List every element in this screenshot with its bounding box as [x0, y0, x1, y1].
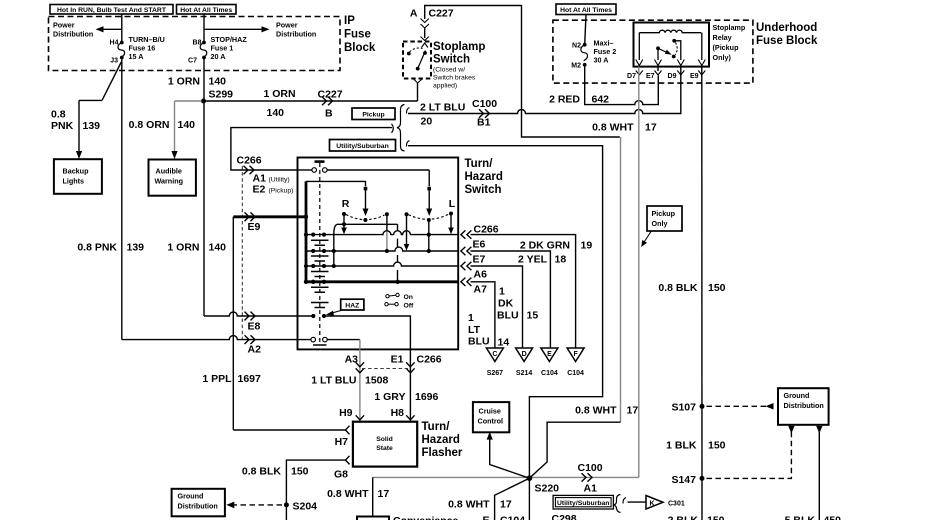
svg-text:Hazard: Hazard: [422, 434, 460, 446]
svg-text:20: 20: [421, 116, 433, 128]
wire bus top horizontal to R feed: [306, 181, 366, 186]
svg-text:C104: C104: [541, 370, 558, 377]
wire 1 PPL 1697 riser from H7 up to E9: [232, 217, 234, 430]
svg-text:2 BLK: 2 BLK: [668, 515, 699, 520]
svg-text:(Pickup: (Pickup: [713, 43, 740, 52]
switch row3 (A6): [304, 262, 458, 268]
label 0.8 WHT 17 (upper): [592, 122, 657, 134]
svg-text:0.8 BLK: 0.8 BLK: [658, 282, 698, 294]
svg-text:C227: C227: [429, 8, 454, 20]
svg-text:5 BLK: 5 BLK: [785, 515, 816, 520]
svg-text:applied): applied): [433, 83, 457, 90]
svg-text:F: F: [573, 351, 578, 358]
svg-text:H4: H4: [110, 40, 119, 47]
pin A and C227 at top: [410, 8, 454, 29]
label Hot At All Times (IP): [177, 5, 237, 15]
connector C100 B1: [472, 98, 497, 129]
E9 bus tap dot: [304, 215, 308, 219]
svg-text:1: 1: [499, 286, 505, 298]
label 1 PPL 1697: [202, 373, 261, 385]
L cancel cam dashed arc: [409, 214, 450, 219]
svg-text:150: 150: [291, 466, 309, 478]
wire E7 2 YEL 18 to triangle E: [471, 251, 551, 348]
svg-text:15: 15: [527, 310, 539, 322]
svg-text:IP: IP: [344, 15, 355, 27]
wire from Hot At All Times to fuse STOP/HAZ: [203, 14, 205, 42]
switch A2 contact row (open circles) to A3: [311, 337, 360, 349]
label HAZ with arrow: [326, 299, 364, 316]
label 0.8 ORN 140: [129, 119, 196, 131]
svg-text:Turn/: Turn/: [465, 158, 494, 170]
svg-text:2 RED: 2 RED: [549, 94, 580, 106]
dashed ground reference S107 to ground distribution: [707, 403, 774, 410]
wire stoplamp A chevron into box: [421, 37, 429, 41]
svg-text:17: 17: [627, 405, 639, 417]
svg-text:Ground: Ground: [178, 492, 204, 501]
label TURN-B/U Fuse 16 15 A: [129, 35, 165, 61]
connector C266 dashed plane A3-E1: [362, 368, 408, 370]
svg-text:Distribution: Distribution: [178, 502, 218, 511]
svg-text:Utility/Suburban: Utility/Suburban: [336, 143, 389, 150]
svg-text:C266: C266: [237, 155, 262, 167]
label Underhood Fuse Block: [756, 22, 818, 47]
svg-text:B8: B8: [193, 40, 202, 47]
switch row2 (E7): [306, 247, 458, 253]
wire wafer jumper vertical to row4: [397, 239, 399, 282]
svg-text:Convenience: Convenience: [393, 515, 459, 520]
wire E9 thick from riser into switch: [233, 215, 306, 218]
wire S220 to E C104 0.8 WHT 17: [495, 478, 530, 520]
wire to K triangle: [628, 501, 646, 503]
svg-text:A2: A2: [248, 344, 262, 356]
svg-text:17: 17: [645, 122, 657, 134]
svg-text:State: State: [376, 445, 393, 452]
wire S220 down to C298: [528, 478, 530, 520]
svg-text:19: 19: [581, 240, 593, 252]
triangle connector K C301: [646, 496, 685, 510]
pin H7 with chevron: [335, 426, 350, 448]
label 1 LT BLU 14: [468, 312, 509, 349]
label Utility/Suburban box: [330, 140, 396, 152]
label Turn/Hazard Flasher: [422, 421, 463, 459]
splice S147: [671, 474, 704, 486]
svg-text:L: L: [449, 198, 456, 210]
svg-text:D7: D7: [627, 73, 636, 80]
connector chevron below stoplamp switch: [414, 79, 422, 83]
label 0.8 WHT 17 (lower): [448, 499, 512, 511]
label 2 YEL 18: [518, 254, 566, 266]
wire S299 right to C227 B then up to stoplamp switch: [204, 83, 418, 101]
label 2 RED 642: [549, 94, 609, 106]
wire A6 1 DK BLU 15 to triangle D: [471, 266, 523, 348]
wire 2 LT BLU 20 (pickup) to relay D9: [408, 83, 681, 114]
svg-text:Hazard: Hazard: [465, 171, 503, 183]
svg-text:M2: M2: [571, 63, 581, 70]
svg-text:Solid: Solid: [376, 436, 393, 443]
label 2 BLK 150 (cut bottom): [668, 515, 725, 520]
svg-text:Fuse: Fuse: [344, 29, 371, 41]
dashed ground reference S147 path: [707, 426, 795, 479]
svg-text:140: 140: [209, 242, 227, 254]
svg-text:E9: E9: [248, 221, 261, 233]
svg-text:E8: E8: [248, 321, 261, 333]
svg-text:H8: H8: [391, 407, 405, 419]
wire 0.8 WHT trunk gray through S220: [373, 476, 639, 478]
svg-text:B1: B1: [477, 117, 491, 129]
R feed arrow: [363, 190, 369, 216]
svg-text:A7: A7: [474, 284, 488, 296]
svg-text:0.8: 0.8: [51, 109, 66, 121]
svg-text:1 BLK: 1 BLK: [666, 440, 697, 452]
box Convenience Center (cut): [357, 515, 459, 520]
wire S299 down to E8 (1 ORN 140 long vertical): [203, 101, 205, 316]
stoplamp switch contacts: [407, 43, 428, 71]
svg-text:G8: G8: [334, 469, 348, 481]
connector chevrons E9: [245, 212, 256, 221]
label 1 GRY 1696: [374, 391, 438, 403]
svg-text:Relay: Relay: [713, 33, 732, 42]
label Pickup box: [352, 108, 395, 120]
turn/hazard flasher box: [353, 422, 417, 467]
svg-text:0.8 BLK: 0.8 BLK: [242, 466, 282, 478]
svg-text:HAZ: HAZ: [345, 302, 359, 309]
svg-text:Flasher: Flasher: [422, 447, 463, 459]
svg-text:C104: C104: [500, 515, 525, 520]
svg-text:2 LT BLU: 2 LT BLU: [420, 102, 465, 114]
wire Hot At All Times to maxi-fuse: [585, 15, 586, 45]
stoplamp switch dashed box: [403, 42, 431, 79]
connector C266 chevrons on A3 E1: [356, 362, 415, 373]
connector C266 dashed plane line: [241, 166, 243, 340]
L left post: [404, 212, 410, 250]
label 2 DK GRN 19: [520, 240, 593, 252]
svg-text:Off: Off: [404, 303, 415, 310]
wire wafer jumper horizontal: [334, 224, 398, 234]
wire 2 RED 642 from M2 to relay E7: [585, 65, 659, 105]
wire utility/suburban branch to S220 riser (right): [408, 146, 603, 479]
svg-text:LT: LT: [468, 324, 481, 336]
pin E2 (Pickup): [253, 184, 294, 196]
label Hot At All Times (underhood): [556, 4, 616, 15]
svg-text:BLU: BLU: [497, 310, 519, 322]
svg-text:139: 139: [127, 242, 145, 254]
label 1 DK BLU 15: [497, 286, 538, 322]
IP fuse block dashed box: [49, 17, 341, 71]
svg-text:Switch brakes: Switch brakes: [433, 75, 476, 82]
connector C266 chevrons rows E6 E7 A6 A7: [461, 230, 472, 286]
svg-text:E1: E1: [391, 354, 404, 366]
svg-text:1 ORN: 1 ORN: [264, 88, 296, 100]
svg-text:S147: S147: [671, 474, 696, 486]
splice S220: [527, 475, 560, 494]
svg-text:14: 14: [498, 337, 510, 349]
arrow to Power Distribution right: [204, 26, 270, 32]
L right post: [448, 212, 454, 235]
svg-text:Backup: Backup: [63, 167, 90, 176]
turn/hazard switch box: [298, 158, 459, 350]
svg-text:15 A: 15 A: [129, 52, 144, 61]
label Pickup Only with arrow: [641, 206, 682, 247]
label Hot In RUN, Bulb Test And START: [50, 5, 173, 15]
wire A7 1 LT BLU 14 to triangle C: [471, 282, 495, 348]
svg-text:1: 1: [468, 312, 474, 324]
triangle connector C S267: [486, 348, 503, 377]
svg-text:(Closed w/: (Closed w/: [433, 67, 465, 74]
svg-text:0.8 ORN: 0.8 ORN: [129, 119, 170, 131]
wire 0.8 WHT corner to S220: [529, 422, 620, 478]
label 0.8 BLK 150: [658, 282, 725, 294]
svg-text:18: 18: [555, 254, 567, 266]
pin G8 with chevron: [334, 456, 350, 481]
svg-text:S107: S107: [671, 402, 696, 414]
svg-text:1696: 1696: [415, 391, 439, 403]
svg-text:C: C: [492, 351, 497, 358]
maxi-fuse 2 30A: [581, 43, 588, 67]
connector chevrons A2: [245, 335, 256, 344]
svg-text:1 GRY: 1 GRY: [374, 391, 405, 403]
svg-text:Hot At All Times: Hot At All Times: [180, 7, 232, 14]
stoplamp relay box: [634, 23, 710, 67]
svg-text:Utility/Suburban: Utility/Suburban: [557, 500, 610, 507]
wire utility/suburban branch to C266 A1/E2 (left): [231, 128, 392, 170]
svg-text:B: B: [325, 108, 333, 120]
svg-text:J3: J3: [110, 58, 118, 65]
svg-text:Audible: Audible: [156, 167, 182, 176]
relay pin arrows inside box: [636, 60, 706, 66]
triangle connector F C104: [567, 348, 584, 377]
svg-text:S220: S220: [535, 483, 560, 495]
switch entry row with hazard contacts (open circles): [298, 168, 430, 173]
svg-text:Underhood: Underhood: [756, 22, 817, 34]
svg-text:E2: E2: [253, 184, 266, 196]
svg-text:S204: S204: [293, 501, 318, 513]
svg-text:Distribution: Distribution: [784, 401, 824, 410]
label Utility/Suburban double box: [553, 495, 613, 509]
wire from Hot In RUN label to fuse TURN-B/U: [121, 14, 123, 42]
svg-text:C104: C104: [567, 370, 584, 377]
box Ground Distribution (left): [172, 489, 225, 517]
R moving contact dot: [363, 218, 367, 222]
L feed from entry row: [426, 170, 432, 216]
svg-text:On: On: [404, 294, 413, 301]
wire A3 gray from switch to H9: [359, 349, 361, 421]
svg-text:0.8 WHT: 0.8 WHT: [575, 405, 617, 417]
svg-text:C100: C100: [578, 462, 603, 474]
brace at C301: [614, 495, 627, 513]
wire A2 row from 0.8 PNK into switch contact: [122, 336, 311, 340]
svg-text:2 YEL: 2 YEL: [518, 254, 548, 266]
svg-text:0.8 WHT: 0.8 WHT: [448, 499, 490, 511]
svg-text:A1: A1: [584, 483, 598, 495]
wire trunk branch to convenience center 0.8 WHT 17: [372, 477, 374, 516]
R feed square dot: [364, 187, 368, 191]
wire E6 2 DK GRN 19 to triangle F: [471, 235, 576, 348]
splice S107: [671, 402, 704, 414]
svg-text:1 ORN: 1 ORN: [167, 242, 199, 254]
svg-text:E9: E9: [690, 73, 699, 80]
wire H7 stub: [233, 429, 345, 431]
svg-text:Power: Power: [276, 21, 298, 30]
svg-text:Lights: Lights: [63, 177, 85, 186]
splice S299: [201, 99, 206, 104]
svg-text:Distribution: Distribution: [53, 30, 93, 39]
label 0.8 WHT 17 (convenience): [327, 488, 389, 500]
wire E1 from switch to H8: [409, 349, 411, 421]
svg-text:1697: 1697: [238, 373, 262, 385]
svg-text:Switch: Switch: [433, 54, 470, 66]
switch row4 (A7, thick): [304, 280, 458, 284]
R cancel cam dashed arc: [346, 215, 385, 220]
svg-text:139: 139: [83, 120, 101, 132]
switch B+ bus (thick): [305, 181, 308, 283]
label Maxi-Fuse 2 30 A: [594, 39, 617, 65]
svg-text:140: 140: [209, 76, 227, 88]
svg-text:D9: D9: [668, 73, 677, 80]
svg-text:Stoplamp: Stoplamp: [713, 23, 746, 32]
svg-text:Cruise: Cruise: [479, 407, 501, 416]
svg-text:H9: H9: [339, 407, 353, 419]
label 2 LT BLU 20: [420, 102, 465, 128]
label 1 ORN 140 (mid): [167, 242, 226, 254]
fuse STOP/HAZ Fuse 1 20A: [200, 41, 207, 60]
switch HAZ contact row (closed dots): [311, 314, 410, 350]
R left post: [341, 212, 347, 234]
svg-text:Turn/: Turn/: [422, 421, 451, 433]
wire 0.8 WHT 17 gray riser (stoplamp to S220 path): [620, 137, 622, 422]
ground distribution solid drop wire: [816, 426, 822, 520]
svg-text:BLU: BLU: [468, 336, 490, 348]
svg-text:17: 17: [500, 499, 512, 511]
label 1 ORN 140 S299: [168, 76, 233, 101]
connector chevrons E8: [245, 312, 256, 321]
label 5 BLK 450 (cut bottom): [785, 515, 842, 520]
splice S204: [284, 501, 317, 513]
svg-text:Ground: Ground: [784, 391, 810, 400]
label IP Fuse Block: [344, 15, 376, 54]
dashed ground reference from S204: [226, 502, 282, 509]
box Cruise Control: [473, 402, 509, 432]
svg-text:30 A: 30 A: [594, 56, 609, 65]
svg-text:17: 17: [378, 488, 390, 500]
svg-text:H7: H7: [335, 436, 349, 448]
svg-text:A6: A6: [474, 269, 488, 281]
connector C100 A1 on trunk: [578, 462, 603, 495]
svg-text:Control: Control: [478, 417, 504, 426]
svg-text:642: 642: [592, 94, 610, 106]
R right post: [385, 212, 389, 253]
box Ground Distribution (right): [778, 388, 829, 425]
brace group C100 pickup/utility split: [392, 105, 410, 151]
svg-text:E7: E7: [473, 254, 486, 266]
L moving contact dot and taps to rows: [427, 218, 431, 253]
switch wafer ticks: [311, 240, 329, 345]
underhood fuse block dashed box: [553, 20, 753, 83]
switch row1 (E6): [304, 231, 458, 237]
relay coil: [639, 30, 702, 60]
relay contacts: [656, 39, 681, 60]
wire S220 to cruise control: [487, 432, 530, 478]
svg-text:N2: N2: [572, 43, 581, 50]
box Audible Warning: [149, 160, 196, 196]
svg-text:150: 150: [708, 282, 726, 294]
svg-text:Distribution: Distribution: [276, 30, 316, 39]
svg-text:20 A: 20 A: [211, 52, 226, 61]
svg-text:Pickup: Pickup: [652, 209, 676, 218]
box Backup Lights: [54, 159, 102, 194]
pin E connector C104 (cut): [482, 515, 525, 520]
svg-text:1 PPL: 1 PPL: [202, 373, 232, 385]
wire relay D9 pin stub: [680, 67, 682, 84]
svg-text:Fuse Block: Fuse Block: [756, 35, 818, 47]
svg-text:140: 140: [178, 119, 196, 131]
svg-text:C301: C301: [668, 501, 685, 508]
svg-text:Warning: Warning: [155, 177, 183, 186]
svg-text:140: 140: [267, 107, 285, 119]
wire G8 0.8 BLK 150 to S204: [286, 460, 345, 520]
svg-text:A: A: [410, 8, 418, 20]
svg-text:0.8 WHT: 0.8 WHT: [327, 488, 369, 500]
label Stoplamp Switch: [433, 41, 485, 90]
relay pin chevrons below box: [636, 71, 706, 76]
svg-text:(Utility): (Utility): [269, 177, 290, 184]
connector C266 chevrons on A1/E2 row: [244, 166, 255, 174]
svg-text:PNK: PNK: [51, 120, 74, 132]
svg-text:Hot At All Times: Hot At All Times: [560, 7, 612, 14]
triangle connector D S214: [516, 348, 533, 377]
pin A1 (Utility): [253, 173, 290, 185]
svg-text:1 ORN: 1 ORN: [168, 76, 200, 88]
svg-text:Stoplamp: Stoplamp: [433, 41, 485, 53]
svg-text:C266: C266: [474, 224, 499, 236]
label 1 BLK 150: [666, 440, 726, 452]
triangle connector E C104: [541, 348, 558, 377]
svg-text:E6: E6: [473, 239, 486, 251]
label 1 ORN 140 on S299-C227 wire: [264, 88, 296, 119]
svg-text:Hot In RUN, Bulb Test And STAR: Hot In RUN, Bulb Test And START: [57, 7, 167, 14]
label 1 LT BLU 1508: [311, 375, 388, 387]
svg-text:D: D: [522, 351, 527, 358]
label 0.8 PNK 139 (mid): [77, 242, 144, 254]
connector C227 pin B: [318, 89, 343, 120]
label 0.8 BLK 150: [242, 466, 309, 478]
svg-text:Only): Only): [713, 53, 732, 62]
label Power Distribution (right): [276, 21, 316, 39]
svg-text:1508: 1508: [365, 375, 389, 387]
wire relay E7 pin stub: [657, 67, 659, 72]
fuse TURN-B/U Fuse 16 15A: [118, 41, 125, 60]
label Solid State: [376, 436, 393, 452]
wire wafer side link row1-row3: [332, 235, 336, 268]
wire S299 branch to Audible Warning (0.8 ORN, gray): [171, 101, 201, 159]
legend On/Off: [385, 293, 414, 309]
switch mechanical linkage dashed: [319, 163, 321, 345]
wire stoplamp pin A up and across top: [425, 6, 620, 138]
svg-text:C266: C266: [417, 354, 442, 366]
arrow to Power Distribution left: [96, 26, 122, 32]
label STOP/HAZ Fuse 1 20 A: [211, 35, 248, 61]
svg-text:Switch: Switch: [465, 184, 502, 196]
wire E8 row from 1 ORN into switch HAZ contact: [204, 312, 312, 316]
wire relay D7 0.8 WHT 17 gray down to C100 trunk: [638, 67, 640, 478]
label Power Distribution (left): [53, 21, 93, 39]
svg-text:0.8 PNK: 0.8 PNK: [77, 242, 117, 254]
svg-text:K: K: [650, 501, 655, 508]
svg-text:1 LT BLU: 1 LT BLU: [311, 375, 356, 387]
svg-text:Only: Only: [652, 219, 668, 228]
svg-text:Block: Block: [344, 42, 376, 54]
svg-text:(Pickup): (Pickup): [269, 188, 294, 195]
label Turn/Hazard Switch: [465, 158, 503, 196]
